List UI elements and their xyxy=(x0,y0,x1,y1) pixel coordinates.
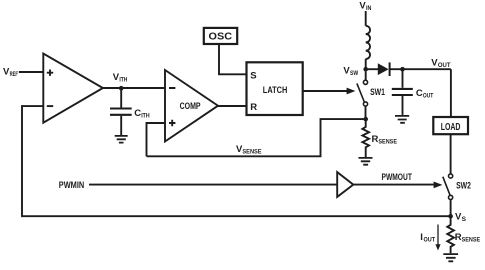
capacitor CITH xyxy=(110,109,132,115)
label COUT xyxy=(416,88,433,100)
svg-text:C: C xyxy=(134,108,141,119)
node VSW xyxy=(363,67,368,72)
node VITH xyxy=(119,86,124,91)
wire CITH to ground xyxy=(120,116,122,136)
label VREF xyxy=(3,67,18,79)
label SW2 xyxy=(456,181,471,192)
oscillator OSC box xyxy=(204,28,237,44)
wire VREF lead xyxy=(19,71,44,73)
inductor L1 xyxy=(366,26,370,59)
wire LATCH output to SW1 with arrow xyxy=(303,88,356,95)
label VSW xyxy=(343,66,358,78)
wire op-amp output to COMP minus input xyxy=(103,87,165,89)
wire VSW to diode anode xyxy=(366,68,378,70)
svg-text:LATCH: LATCH xyxy=(263,85,288,96)
label VIN xyxy=(359,1,371,13)
wire OSC to LATCH S input xyxy=(219,44,247,74)
resistor RSENSE 2 xyxy=(447,216,454,253)
svg-text:OUT: OUT xyxy=(424,237,436,244)
label SW1 xyxy=(370,87,385,98)
svg-text:C: C xyxy=(416,88,423,99)
label VITH xyxy=(113,72,128,84)
arrow IOUT xyxy=(435,225,440,251)
svg-text:REF: REF xyxy=(10,71,18,78)
wire VOUT corner down to LOAD xyxy=(450,69,452,117)
wire LOAD to SW2 xyxy=(450,134,452,174)
wire COMP plus input to VSENSE line xyxy=(147,123,166,156)
svg-text:ITH: ITH xyxy=(119,77,127,84)
svg-text:LOAD: LOAD xyxy=(441,122,461,133)
buffer U2 xyxy=(337,172,353,197)
wire COMP output to LATCH R input xyxy=(218,105,247,107)
svg-text:R: R xyxy=(250,102,257,113)
svg-text:COMP: COMP xyxy=(180,101,201,112)
comparator COMP xyxy=(165,70,218,142)
ground under RSENSE 2 xyxy=(443,254,458,261)
wire diode cathode to VOUT corner xyxy=(391,68,451,70)
node VS xyxy=(448,214,453,219)
ground under RSENSE 1 xyxy=(359,158,373,165)
label PWMIN xyxy=(59,180,85,191)
node RSENSE top xyxy=(363,117,368,122)
label IOUT xyxy=(420,232,435,244)
ground under CITH xyxy=(115,136,128,143)
wire VSENSE feedback line xyxy=(147,119,364,156)
label RSENSE 2 xyxy=(455,232,481,244)
wire inductor to VSW node xyxy=(365,59,367,69)
diode D1 xyxy=(378,62,390,76)
svg-text:SENSE: SENSE xyxy=(462,237,481,244)
switch SW2 xyxy=(443,174,453,216)
op-amp A1 error amplifier xyxy=(43,54,103,123)
label VS xyxy=(455,212,467,224)
svg-text:PWMOUT: PWMOUT xyxy=(382,172,413,183)
svg-text:SW: SW xyxy=(350,70,359,77)
wire VOUT node to COUT xyxy=(402,69,404,88)
wire buffer output PWMOUT to SW2 with arrow xyxy=(353,182,442,189)
svg-text:PWMIN: PWMIN xyxy=(59,180,85,191)
svg-text:SW1: SW1 xyxy=(370,87,385,98)
label PWMOUT xyxy=(382,172,413,183)
svg-text:SW2: SW2 xyxy=(456,181,471,192)
wire VIN lead xyxy=(365,11,367,26)
capacitor COUT xyxy=(392,89,413,95)
load box xyxy=(433,117,468,134)
svg-text:OUT: OUT xyxy=(423,92,433,99)
label CITH xyxy=(134,108,150,120)
wire PWMIN to buffer xyxy=(89,184,337,186)
svg-text:OSC: OSC xyxy=(209,32,233,43)
label VSENSE xyxy=(236,144,262,156)
label VOUT xyxy=(431,57,450,69)
resistor RSENSE 1 xyxy=(362,119,369,157)
ground under COUT xyxy=(395,116,409,123)
svg-text:IN: IN xyxy=(366,5,372,12)
svg-text:ITH: ITH xyxy=(141,113,150,120)
svg-text:S: S xyxy=(250,71,256,82)
wire COUT to ground xyxy=(402,96,404,115)
node VOUT xyxy=(400,67,405,72)
latch U1 box xyxy=(247,62,303,115)
switch SW1 xyxy=(357,72,368,120)
label RSENSE 1 xyxy=(372,134,398,146)
wire VITH node to CITH xyxy=(120,88,122,107)
svg-text:SENSE: SENSE xyxy=(242,149,262,156)
svg-text:SENSE: SENSE xyxy=(378,138,397,145)
svg-text:OUT: OUT xyxy=(438,62,451,69)
svg-text:S: S xyxy=(462,216,467,223)
wire error amp minus feedback left vertical and bottom line xyxy=(22,106,451,216)
